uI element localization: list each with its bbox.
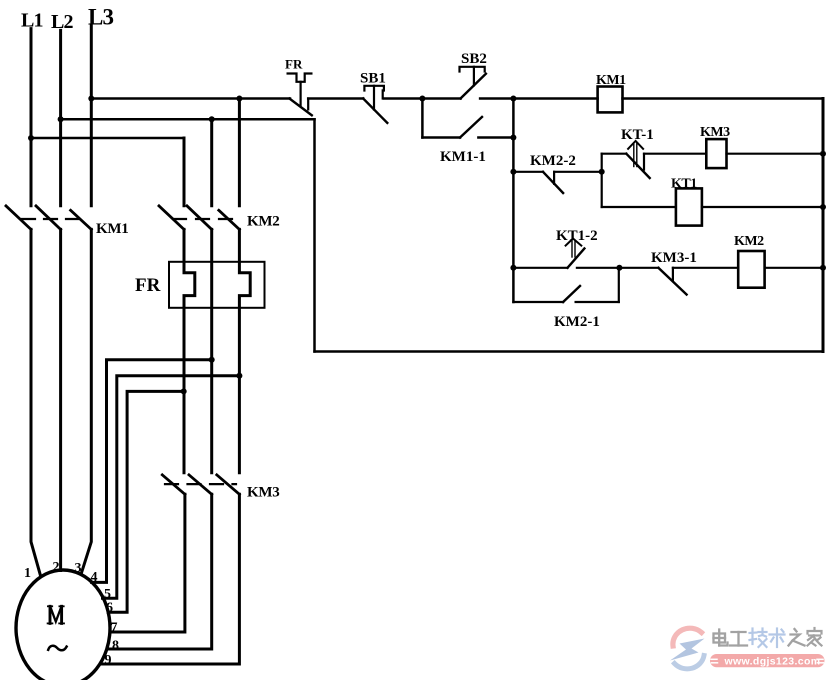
wire KM2 pole2 stub: [210, 119, 213, 206]
pushbutton SB1 stem: [373, 86, 375, 110]
svg-text:KM2: KM2: [247, 214, 279, 230]
coil KM1: [598, 87, 623, 113]
timed contact KT-1 arrow shaft: [633, 143, 635, 167]
motor M circle: [16, 570, 110, 680]
contact KM2-2 fixed tick: [553, 172, 555, 184]
svg-text:3: 3: [75, 561, 82, 576]
timed contact KT1-2 left lead: [513, 267, 567, 269]
watermark chinese char ji: [750, 629, 767, 648]
watermark chinese char dian: [714, 630, 728, 646]
timed contact KT1-2 arrow shaft: [571, 241, 573, 258]
junction dot right bus row3: [820, 204, 826, 210]
junction dot right bus row4: [820, 265, 826, 271]
thermal contact FR blade: [289, 99, 311, 116]
junction dot left bus KM1-1: [510, 135, 516, 141]
watermark chinese char gong: [730, 632, 747, 646]
pushbutton SB2 blade: [461, 74, 486, 99]
contact KM3-1 blade: [658, 268, 686, 295]
svg-text:KT-1: KT-1: [621, 127, 654, 143]
contactor KM2 pole2 blade: [187, 206, 212, 230]
svg-text:FR: FR: [285, 57, 303, 72]
contactor KM1 linkage dashed: [22, 218, 78, 220]
watermark chinese char zhi: [789, 629, 805, 646]
wire KT-1 to KM3 coil: [644, 153, 706, 155]
junction dot L3 branch: [88, 96, 94, 102]
motor AC tilde symbol: [48, 646, 66, 651]
contactor KM1 pole3 blade: [71, 210, 92, 229]
timed contact KT1-2 blade: [568, 249, 585, 268]
wire control return drop at x=314.5: [313, 119, 316, 351]
contact KM1-1 drop wire: [421, 99, 424, 138]
junction dot SB2 left: [419, 96, 425, 102]
wire tap to terminal4: [92, 360, 212, 583]
timed contact KT-1 fixed tick: [643, 154, 645, 170]
coil KM2: [738, 251, 764, 288]
contactor KM2 linkage dashed: [173, 218, 232, 220]
wire left bus: [512, 99, 515, 303]
junction dot L2 branch: [58, 116, 64, 122]
junction dot L1 branch: [28, 135, 34, 141]
timed contact KT-1 blade: [626, 154, 649, 178]
svg-text:www.dgjs123.com: www.dgjs123.com: [724, 655, 821, 667]
timed contact KT-1 arrow head: [628, 141, 643, 149]
watermark chinese char shu: [770, 629, 785, 648]
wire sub bus x=601.7: [601, 154, 603, 207]
wire KT1 coil to right bus: [702, 206, 823, 208]
contact KM1-1 blade: [460, 117, 482, 138]
wire KM3 pole2 to terminal8: [108, 494, 212, 649]
svg-text:KT1: KT1: [671, 177, 697, 192]
watermark url band right stripes: [817, 659, 824, 663]
junction dot left bus KM2-2: [510, 169, 516, 175]
wire L1 branch horizontal: [31, 137, 184, 140]
watermark url band left stripes: [711, 659, 718, 663]
svg-text:6: 6: [106, 601, 113, 616]
svg-text:L2: L2: [51, 11, 74, 33]
pushbutton SB1 blade: [363, 99, 387, 123]
wire row2 left lead: [602, 153, 627, 155]
svg-text:KM3-1: KM3-1: [651, 250, 697, 266]
wire FR phase3 with heater bump: [239, 229, 250, 472]
contact KM3-1 right lead: [673, 267, 738, 269]
wire FR phase1 with heater bump: [184, 229, 195, 472]
svg-text:KM1: KM1: [596, 73, 626, 88]
watermark logo blue bottom arc: [675, 656, 705, 669]
junction dot left bus row4: [510, 265, 516, 271]
junction dot tap terminal6: [181, 388, 187, 394]
wire KM3 coil to right bus: [727, 153, 824, 155]
contact KM3-1 left lead: [619, 267, 658, 269]
wire right bus: [822, 99, 825, 352]
svg-text:KM2: KM2: [734, 234, 764, 249]
watermark url band: [710, 654, 825, 667]
wire KM2 coil to right bus: [765, 267, 823, 269]
wire row3 left lead: [602, 206, 676, 208]
wire L1 vertical: [30, 29, 33, 206]
wire L3 vertical: [90, 26, 93, 206]
contact KM2-1 left lead: [513, 301, 563, 303]
coil KT1: [676, 188, 702, 225]
junction dot KT1-2 KM2-1: [616, 265, 622, 271]
wire FR to SB1: [308, 97, 363, 100]
wire L2 branch horizontal: [61, 118, 315, 121]
svg-text:7: 7: [111, 621, 118, 636]
wire KM1 pole3 lower: [81, 229, 91, 574]
junction dot tap terminal4: [209, 357, 215, 363]
svg-text:4: 4: [91, 570, 98, 585]
wire tap to terminal5: [103, 376, 240, 599]
svg-text:KM3: KM3: [700, 125, 730, 140]
contact KM3-1 fixed tick: [672, 268, 674, 280]
svg-text:KM2-1: KM2-1: [554, 314, 600, 330]
wire SB1 to SB2: [384, 97, 423, 100]
contactor KM3 pole2 blade: [189, 475, 212, 494]
contact KM2-1 blade: [563, 286, 580, 302]
svg-text:SB1: SB1: [360, 71, 386, 87]
timed contact KT1-2 right lead: [577, 267, 620, 269]
wire L3 branch to control rung: [91, 97, 290, 100]
contact KM1-1 right lead: [478, 136, 513, 139]
wire SB2 left lead: [422, 97, 460, 100]
junction dot tap terminal5: [236, 373, 242, 379]
contact KM2-2 left lead: [513, 171, 543, 173]
contact KM1-1 left lead: [422, 136, 460, 139]
svg-text:KM1: KM1: [96, 221, 128, 237]
contactor KM3 linkage dashed: [165, 483, 236, 485]
svg-text:9: 9: [105, 653, 112, 668]
junction dot right bus row2: [820, 151, 826, 157]
wire bottom return: [315, 350, 824, 353]
contact KM2-2 right lead: [554, 171, 602, 173]
thermal contact FR heater symbol: [288, 74, 312, 82]
svg-text:KM3: KM3: [247, 485, 279, 501]
svg-text:1: 1: [24, 566, 31, 581]
wire FR phase2 straight: [210, 229, 213, 472]
wire SB2 right lead: [480, 97, 513, 100]
contact KM2-1 riser: [618, 268, 620, 302]
junction dot KM2-2 to sub bus: [599, 169, 605, 175]
watermark logo pink arc: [673, 628, 702, 646]
wire KM3 pole1 to terminal7: [110, 494, 185, 632]
wire L2 vertical: [59, 30, 62, 205]
svg-text:KM1-1: KM1-1: [440, 149, 486, 165]
pushbutton SB1 cap: [364, 86, 384, 91]
wire tap to terminal6: [108, 391, 184, 612]
junction dot KM2 pole3 feed: [236, 96, 242, 102]
thermal relay FR box: [169, 262, 265, 308]
timed contact KT1-2 arrow head: [566, 239, 582, 246]
watermark chinese char jia: [808, 628, 822, 646]
contact KM2-1 right lead: [576, 301, 619, 303]
pushbutton SB2 cap: [460, 67, 485, 72]
svg-text:FR: FR: [135, 275, 161, 296]
svg-text:2: 2: [53, 560, 60, 575]
svg-text:SB2: SB2: [461, 51, 487, 67]
junction dot KM2 pole2 feed: [209, 116, 215, 122]
wire KM1 coil to right bus: [623, 97, 824, 100]
wire to KM1 coil: [513, 97, 597, 100]
contactor KM2 pole3 blade: [219, 210, 240, 229]
contact KM2-2 blade: [543, 172, 563, 193]
motor M letter: [48, 606, 64, 623]
wire KM2 pole1 stub: [183, 138, 186, 206]
pushbutton SB2 stem: [473, 67, 475, 86]
pushbutton SB1 fixed tick: [382, 90, 384, 98]
svg-text:8: 8: [112, 639, 119, 654]
watermark logo blue flash: [670, 639, 705, 661]
thermal contact FR actuator stem: [300, 82, 302, 106]
svg-text:KM2-2: KM2-2: [530, 153, 576, 169]
coil KM3: [706, 139, 726, 168]
wire KM3 pole3 to terminal9: [102, 494, 240, 664]
wire KM2 pole3 stub: [238, 99, 241, 206]
contactor KM3 pole1 blade: [162, 475, 185, 494]
contactor KM1 pole1 blade: [6, 206, 31, 230]
contactor KM3 pole3 blade: [217, 475, 240, 494]
wire KM1 pole2 lower: [59, 229, 62, 570]
wire KM1 pole1 lower: [31, 229, 41, 575]
contactor KM1 pole2 blade: [36, 206, 61, 230]
thermal contact FR fixed tick: [307, 99, 309, 110]
contactor KM2 pole1 blade: [159, 206, 184, 230]
junction dot left bus top: [510, 96, 516, 102]
